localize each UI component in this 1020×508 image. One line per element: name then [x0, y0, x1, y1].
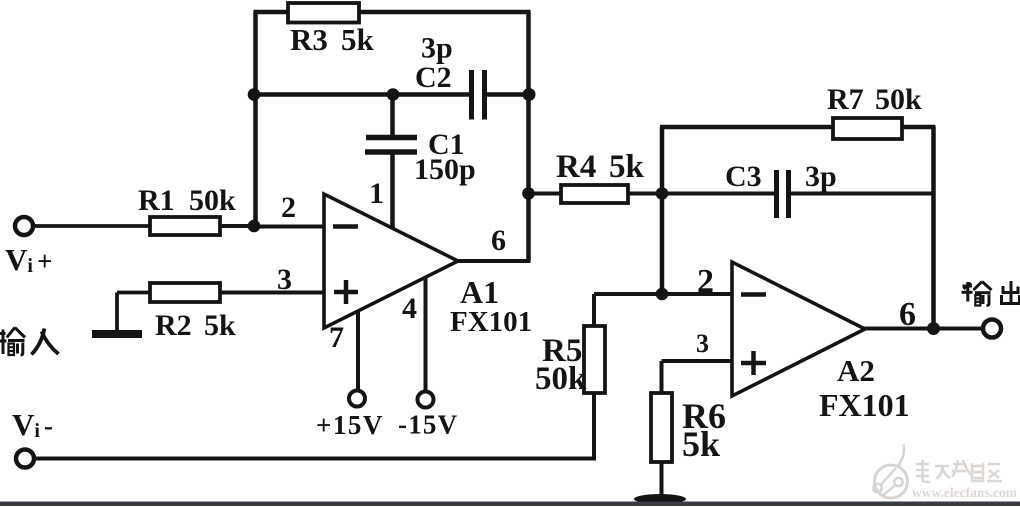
wire: right vertical of A1 loop	[526, 12, 531, 261]
wire: A1 pin 4 power lead	[424, 277, 428, 391]
svg-text:R4: R4	[556, 149, 596, 185]
svg-text:2: 2	[281, 191, 296, 224]
wire: C1 bottom lead to A1 pin 1	[390, 154, 395, 230]
wire: A2 loop right vertical	[931, 127, 936, 329]
svg-text:C3: C3	[725, 160, 762, 193]
node: junction dot at (662,294)	[656, 288, 669, 301]
capacitor C2 left plate	[469, 70, 474, 120]
wire: left vertical of A1 feedback loop	[253, 12, 258, 226]
svg-text:50k: 50k	[535, 361, 587, 397]
wire: Vi- long horizontal to R5 bottom	[35, 457, 596, 461]
resistor R6	[651, 393, 672, 462]
wire: C3 left wire	[662, 192, 774, 196]
node: junction dot mid (393,94.5)	[387, 88, 400, 101]
svg-text:R1: R1	[138, 184, 175, 217]
resistor R7	[833, 118, 902, 139]
terminal: output circle	[983, 320, 1001, 338]
watermark logo circle	[873, 445, 907, 499]
svg-text:www.elecfans.com: www.elecfans.com	[912, 485, 1018, 500]
A1 minus symbol	[333, 224, 358, 229]
capacitor C1 top plate	[366, 135, 417, 141]
wire: R2 ground bend	[115, 293, 119, 332]
capacitor C2 right plate	[482, 70, 487, 120]
wire: C2 right plate to right vertical	[487, 92, 529, 97]
wire: A2 pin 2 horizontal	[594, 292, 732, 296]
wire: R7 right lead	[902, 125, 936, 130]
svg-text:2: 2	[697, 263, 714, 300]
svg-text:3p: 3p	[805, 160, 837, 193]
resistor R1	[150, 217, 220, 235]
wire: A1 pin 7 power lead	[356, 311, 360, 390]
label output Chinese 输出	[962, 281, 1020, 306]
wire: R5 top bend	[592, 294, 596, 327]
capacitor C3 left plate	[774, 170, 779, 218]
svg-text:4: 4	[402, 292, 417, 325]
svg-text:3p: 3p	[421, 32, 453, 65]
svg-text:3: 3	[277, 263, 292, 296]
node: junction dot at (254,226)	[248, 220, 261, 233]
svg-text:7: 7	[329, 321, 344, 354]
svg-text:5k: 5k	[204, 309, 236, 342]
A1 plus symbol	[334, 280, 358, 304]
wire: R6 bottom lead	[660, 462, 664, 497]
op-amp A2 triangle	[732, 262, 865, 396]
wire: A2 output to terminal	[863, 327, 983, 331]
bottom border bar	[0, 502, 1020, 507]
svg-text:R3: R3	[290, 22, 328, 57]
wire: A2 pin 3 horizontal	[662, 359, 733, 363]
A2 minus symbol	[741, 292, 766, 297]
svg-text:R7: R7	[827, 83, 864, 116]
svg-text:3: 3	[696, 329, 709, 358]
ground bar of R2	[92, 330, 142, 338]
resistor R5	[584, 326, 605, 393]
wire: R2 to A1 noninverting input	[220, 291, 324, 295]
terminal: input Vi+ circle	[15, 217, 33, 235]
terminal: input Vi- circle	[16, 450, 34, 468]
label input Chinese 输入	[0, 328, 59, 356]
wire: R7 loop top wire	[660, 125, 834, 130]
wire: junction to A1 inverting input	[254, 225, 324, 229]
A2 plus symbol	[741, 351, 766, 375]
wire: R4 right lead	[628, 192, 664, 196]
node: junction dot at (528.5,193.5)	[522, 187, 535, 200]
wire: R2 left lead	[117, 291, 151, 295]
node: output junction dot	[927, 322, 940, 335]
svg-text:5k: 5k	[609, 149, 645, 185]
svg-text:150p: 150p	[414, 153, 476, 186]
node: junction dot at (529,94.5)	[523, 88, 536, 101]
wire: R1 to junction	[220, 224, 256, 228]
capacitor C3 right plate	[786, 170, 791, 218]
op-amp A1 triangle	[324, 194, 458, 328]
svg-text:C2: C2	[415, 61, 452, 94]
svg-text:FX101: FX101	[819, 387, 910, 423]
wire: top horizontal wire left of R3	[254, 10, 291, 15]
wire: Vi+ to R1	[34, 224, 151, 228]
resistor R4	[561, 185, 628, 203]
wire: C1 top lead	[390, 95, 395, 137]
wire: A2 loop left vertical	[660, 127, 665, 296]
svg-text:A1: A1	[460, 274, 499, 310]
wire: R6 top bend	[660, 361, 664, 394]
wire: top horizontal wire right of R3	[357, 10, 531, 15]
svg-text:5k: 5k	[682, 424, 720, 464]
svg-text:+15V: +15V	[316, 410, 384, 440]
capacitor C1 bottom plate	[365, 149, 417, 155]
svg-text:Vi-: Vi-	[12, 407, 53, 442]
node: junction dot at (662,193.5)	[656, 187, 669, 200]
wire: second feedback wire to C2 left plate	[254, 92, 470, 97]
ground of R6 (filled ellipse)	[634, 494, 686, 504]
svg-text:5k: 5k	[341, 22, 375, 57]
svg-text:-15V: -15V	[398, 410, 458, 440]
svg-text:A2: A2	[837, 353, 875, 388]
svg-text:FX101: FX101	[450, 306, 532, 338]
wire: C3 right wire	[791, 192, 934, 196]
svg-text:50k: 50k	[875, 83, 922, 116]
svg-text:R2: R2	[155, 309, 192, 342]
wire: A1 output to right vertical	[456, 259, 531, 263]
watermark Chinese text 电子发烧友	[916, 460, 1002, 482]
svg-text:1: 1	[369, 177, 384, 210]
terminal: +15V circle	[349, 391, 365, 407]
node: junction dot left (254,94.5)	[248, 88, 261, 101]
svg-text:50k: 50k	[189, 184, 236, 217]
svg-text:6: 6	[491, 224, 506, 257]
resistor R2	[150, 283, 220, 302]
wire: R5 bottom lead	[592, 393, 596, 459]
terminal: -15V circle	[418, 392, 434, 408]
resistor R3	[288, 3, 359, 23]
wire: R4 left lead	[529, 192, 563, 196]
